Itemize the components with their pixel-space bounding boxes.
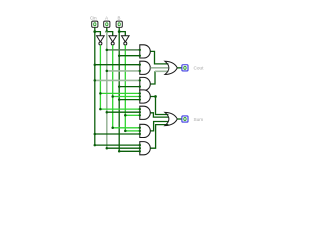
- gate input dot F18 B->G7: [139, 150, 141, 152]
- gate input dot F15 Cin->G6: [139, 133, 141, 135]
- wire G7 out: [150, 125, 168, 149]
- wire F7 Cin'->G4: [100, 92, 139, 94]
- wire pin stub: [118, 28, 120, 33]
- gate input dot F9 B->G4: [139, 98, 141, 100]
- AND gate G4: [140, 90, 150, 103]
- wire G1 out: [150, 51, 168, 64]
- junction F18 B->G7: [118, 150, 121, 153]
- AND gate G1: [140, 45, 151, 58]
- wire OR out to Sum: [177, 118, 182, 120]
- junction G4 corner: [154, 95, 157, 98]
- junction F12 B'->G5: [124, 114, 127, 117]
- wire pin stub: [106, 28, 108, 33]
- gate input dot F17 A->G7: [139, 147, 141, 149]
- junction: [93, 30, 96, 33]
- junction F14 B'->G6: [124, 130, 127, 133]
- gate input dot F4 A->G2 bottom: [139, 70, 141, 72]
- junction F2 B->G1 bottom: [118, 54, 121, 57]
- junction F6 B->G3 bottom: [118, 85, 121, 88]
- wire G3 out to OR1: [155, 70, 168, 72]
- input pin B: [116, 21, 122, 27]
- gate input dot F5 Cin->G3 top: [139, 79, 141, 81]
- input pin Cin: [92, 21, 98, 27]
- inverter U2 (A'): [109, 36, 117, 45]
- wire G6 out: [150, 122, 168, 131]
- wire Cin' vertical bus: [99, 45, 101, 109]
- gate input dot F12 B'->G5: [139, 114, 141, 116]
- wire F6 B->G3 bottom: [119, 86, 140, 88]
- wire B' vertical bus: [124, 45, 126, 131]
- AND gate G5: [140, 106, 151, 119]
- gate input dot F13 A'->G6: [139, 127, 141, 129]
- junction F4 A->G2 bottom: [106, 70, 109, 73]
- gate input dot F6 B->G3 bottom: [139, 85, 141, 87]
- wire F14 B'->G6: [125, 130, 140, 132]
- junction F5 Cin->G3 top: [94, 79, 97, 82]
- gate input dot F16 Cin->G7: [139, 144, 141, 146]
- wire pin stub: [94, 28, 96, 33]
- junction F1 A->G1 top: [106, 49, 109, 52]
- svg-text:Sum: Sum: [194, 117, 204, 122]
- wire A' vertical bus: [112, 45, 114, 128]
- junction: [118, 30, 121, 33]
- gate input dot F8 A'->G4: [139, 95, 141, 97]
- svg-text:A: A: [105, 15, 108, 20]
- gate input dot F10 Cin'->G5: [139, 108, 141, 110]
- wire F17 A->G7: [107, 147, 140, 149]
- OR gate O2: [165, 112, 177, 125]
- junction F16 Cin->G7: [94, 144, 97, 147]
- wire F4 A->G2 bottom: [107, 70, 140, 72]
- inverter U3 (B'): [122, 36, 130, 45]
- wire F11 A->G5: [107, 111, 140, 113]
- junction F15 Cin->G6: [94, 133, 97, 136]
- junction F3 Cin->G2 top: [94, 63, 97, 66]
- junction F7 Cin'->G4: [99, 92, 102, 95]
- wire F18 B->G7: [119, 150, 140, 152]
- gate input dot F7 Cin'->G4: [139, 92, 141, 94]
- AND gate G6: [140, 124, 151, 137]
- wire A vertical bus (faded): [106, 32, 108, 149]
- wire branch to inverter: [95, 32, 101, 37]
- wire F8 A'->G4: [113, 96, 140, 98]
- AND gate G7: [140, 142, 150, 155]
- input pin A: [104, 21, 110, 27]
- gate input dot F14 B'->G6: [139, 130, 141, 132]
- inverter U1 (Cin'): [97, 36, 105, 45]
- junction F17 A->G7: [106, 147, 109, 150]
- wire OR out to Cout: [177, 67, 182, 69]
- junction F11 A->G5: [106, 111, 109, 114]
- svg-text:Cout: Cout: [194, 66, 205, 71]
- wire G3 out stub: [150, 71, 155, 84]
- AND gate G3: [140, 77, 151, 90]
- gate input dot F11 A->G5: [139, 111, 141, 113]
- junction F8 A'->G4: [111, 95, 114, 98]
- wire B vertical bus: [118, 32, 120, 152]
- wire F15 Cin->G6: [95, 133, 140, 135]
- gate input dot F3 Cin->G2 top: [139, 63, 141, 65]
- svg-text:Cin: Cin: [90, 15, 97, 20]
- OR gate O1: [165, 61, 177, 74]
- output pin Cout: [182, 65, 188, 71]
- junction F13 A'->G6: [111, 127, 114, 130]
- wire F16 Cin->G7: [95, 144, 140, 146]
- AND gate G2: [140, 61, 151, 74]
- junction F10 Cin'->G5: [99, 108, 102, 111]
- svg-text:B: B: [118, 15, 121, 20]
- gate input dot F1 A->G1 top: [139, 49, 141, 51]
- wire Cin vertical bus: [94, 32, 96, 146]
- wire G5 out: [150, 113, 168, 117]
- wire branch to inverter: [107, 32, 113, 37]
- wire F12 B'->G5: [125, 114, 140, 116]
- wire F13 A'->G6: [113, 127, 140, 129]
- wire F10 Cin'->G5: [100, 108, 139, 110]
- junction: [105, 30, 108, 33]
- gate input dot F2 B->G1 bottom: [139, 55, 141, 57]
- wire G2 out (faded): [150, 67, 168, 69]
- output pin Sum: [182, 116, 188, 122]
- junction F9 B->G4: [118, 98, 121, 101]
- wire F2 B->G1 bottom: [119, 55, 140, 57]
- wire G4 out: [150, 97, 168, 115]
- wire F1 A->G1 top: [107, 49, 140, 51]
- wire F5 Cin->G3 top: [95, 79, 140, 81]
- wire F3 Cin->G2 top: [95, 64, 140, 66]
- wire branch to inverter: [119, 32, 125, 37]
- wire F9 B->G4: [119, 99, 140, 101]
